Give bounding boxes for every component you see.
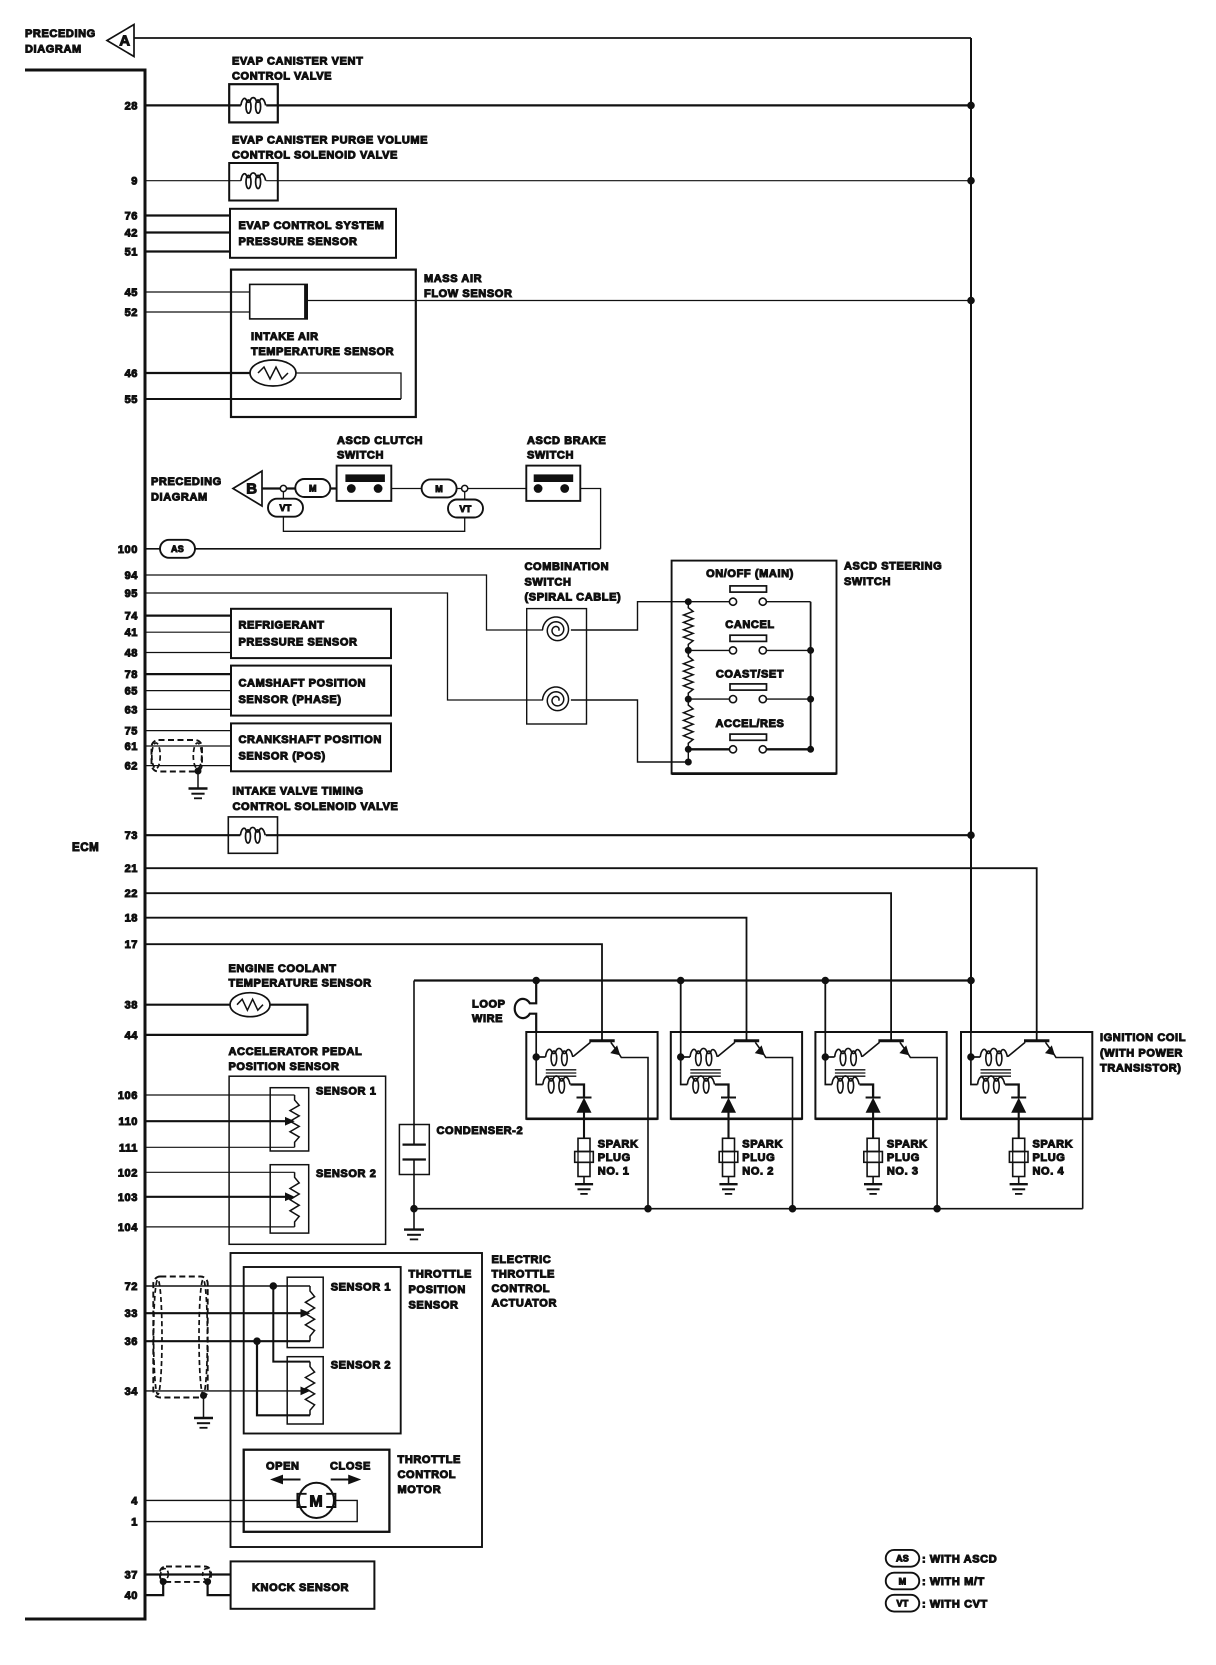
svg-text:78: 78	[125, 669, 138, 681]
TPS sensor 2 box	[287, 1357, 323, 1424]
svg-text:AS: AS	[171, 544, 184, 554]
junction pin 28 / right bus	[968, 102, 975, 109]
wire pin 9	[145, 180, 971, 182]
switch COAST/SET wiring	[688, 698, 810, 700]
svg-text:WIRE: WIRE	[472, 1013, 503, 1025]
solenoid EVAP canister vent control valve coil	[241, 98, 266, 106]
node branch M/VT right	[462, 485, 468, 491]
ignition supply line	[414, 979, 971, 981]
switch ACCEL/RES contacts	[729, 746, 736, 753]
svg-text:ACTUATOR: ACTUATOR	[492, 1298, 558, 1310]
APP sensor 2 resistor	[290, 1172, 299, 1227]
svg-text:SENSOR 1: SENSOR 1	[331, 1282, 391, 1294]
wire condenser feed	[413, 981, 415, 1145]
svg-text:95: 95	[125, 588, 138, 600]
svg-text:38: 38	[125, 1000, 138, 1012]
wire connector B to clutch switch	[262, 487, 337, 489]
svg-text:63: 63	[125, 704, 138, 716]
svg-text:104: 104	[118, 1222, 138, 1234]
svg-text:PLUG: PLUG	[598, 1152, 631, 1164]
junction supply / coil 3	[822, 977, 829, 984]
svg-text:VT: VT	[897, 1599, 909, 1609]
svg-text:75: 75	[125, 726, 138, 738]
svg-text:NO. 1: NO. 1	[598, 1166, 630, 1178]
wire pin 72 branch to sensor 2	[273, 1286, 310, 1362]
svg-text:102: 102	[118, 1167, 138, 1179]
svg-text:ASCD CLUTCH: ASCD CLUTCH	[337, 435, 423, 447]
option oval VT (right)	[448, 500, 483, 518]
svg-text:ECM: ECM	[72, 842, 99, 854]
svg-text:103: 103	[118, 1192, 138, 1204]
svg-text:51: 51	[125, 247, 138, 259]
svg-text:44: 44	[125, 1030, 139, 1042]
svg-text:45: 45	[125, 287, 138, 299]
svg-text:SWITCH: SWITCH	[527, 450, 574, 462]
svg-text:TEMPERATURE SENSOR: TEMPERATURE SENSOR	[251, 346, 394, 358]
node chain bottom	[685, 759, 691, 765]
svg-text:SENSOR 2: SENSOR 2	[316, 1168, 376, 1180]
node rail cancel	[808, 647, 814, 653]
solenoid EVAP canister vent control valve box	[229, 84, 278, 122]
junction supply / coil 1	[533, 977, 540, 984]
mass air flow sensor box	[231, 270, 416, 417]
svg-text:EVAP CANISTER VENT: EVAP CANISTER VENT	[232, 56, 363, 68]
svg-text:48: 48	[125, 648, 138, 660]
legend oval VT	[886, 1595, 920, 1612]
condenser-2 box	[399, 1125, 429, 1175]
engine coolant temperature sensor thermistor	[230, 993, 270, 1017]
wire supply drop coil 3	[824, 981, 826, 1033]
ASCD steering switch box bottom edge	[672, 772, 837, 775]
APP sensor 2 box	[270, 1165, 309, 1233]
svg-text:M: M	[309, 1494, 323, 1511]
svg-text:9: 9	[131, 176, 138, 188]
svg-text:VT: VT	[460, 504, 472, 514]
connector A triangle	[107, 25, 134, 57]
svg-text:PLUG: PLUG	[887, 1152, 920, 1164]
ground crankshaft shield	[189, 787, 208, 789]
svg-text:SENSOR (POS): SENSOR (POS)	[239, 751, 326, 763]
svg-text:IGNITION COIL: IGNITION COIL	[1100, 1032, 1186, 1044]
svg-text:111: 111	[119, 1142, 138, 1154]
ignition coil T3 (with power transistor)	[815, 1032, 946, 1209]
spiral cable coil lower	[543, 687, 569, 711]
switch ON/OFF (MAIN) contacts	[729, 598, 736, 605]
svg-text:EVAP CONTROL SYSTEM: EVAP CONTROL SYSTEM	[239, 220, 385, 232]
solenoid EVAP canister purge volume control coil	[241, 173, 266, 181]
ECM left bus	[25, 69, 145, 1621]
svg-text:MOTOR: MOTOR	[398, 1484, 442, 1496]
svg-text:(WITH POWER: (WITH POWER	[1100, 1047, 1183, 1059]
junction knock shield left	[160, 1579, 166, 1585]
node chain 2	[685, 647, 691, 653]
svg-text:OPEN: OPEN	[266, 1461, 300, 1473]
junction coil 1 emitter / ground line	[645, 1205, 652, 1212]
node branch M/VT left	[280, 485, 286, 491]
MAF inner block	[250, 284, 308, 319]
wire spiral lower to steering switch	[571, 700, 688, 762]
throttle motor brushes	[297, 1494, 335, 1507]
legend oval AS	[886, 1550, 920, 1567]
svg-text:KNOCK SENSOR: KNOCK SENSOR	[252, 1582, 349, 1594]
option oval AS on pin 100 wire	[160, 540, 195, 558]
wire VT bypass branch	[283, 489, 464, 532]
switch CANCEL wiring	[688, 649, 810, 651]
node rail accel/res	[808, 746, 814, 752]
TPS sensor 1 box	[287, 1277, 323, 1347]
svg-text:55: 55	[125, 394, 138, 406]
svg-text:28: 28	[125, 100, 138, 112]
svg-text:ON/OFF (MAIN): ON/OFF (MAIN)	[706, 568, 794, 580]
junction pin 9 / right bus	[968, 177, 975, 184]
switch ACCEL/RES wiring	[688, 748, 810, 750]
wire supply drop coil 2	[680, 981, 682, 1033]
switch ON/OFF (MAIN) wiring	[688, 601, 810, 603]
svg-text:PRESSURE SENSOR: PRESSURE SENSOR	[239, 236, 358, 248]
svg-text:M: M	[435, 484, 443, 494]
wire condenser to ground line	[413, 1160, 415, 1230]
switch CANCEL contacts	[729, 647, 736, 654]
connector B triangle	[233, 471, 262, 506]
wire shield drain	[197, 771, 199, 788]
svg-text:NO. 3: NO. 3	[887, 1166, 919, 1178]
svg-text:73: 73	[125, 830, 138, 842]
ASCD brake switch box	[526, 466, 580, 501]
node chain 4	[685, 746, 691, 752]
node chain top	[685, 599, 691, 605]
ASCD clutch switch contacts	[346, 475, 385, 482]
svg-text:COMBINATION: COMBINATION	[525, 561, 610, 573]
right bus	[970, 38, 972, 1032]
svg-text:34: 34	[125, 1386, 139, 1398]
svg-text:41: 41	[125, 627, 138, 639]
junction coil 3 emitter / ground line	[934, 1205, 941, 1212]
svg-text:4: 4	[131, 1495, 138, 1507]
svg-text:62: 62	[125, 761, 138, 773]
svg-text:DIAGRAM: DIAGRAM	[25, 44, 82, 56]
shield TPS wires	[153, 1277, 207, 1398]
svg-text:94: 94	[125, 570, 139, 582]
svg-text:EVAP CANISTER PURGE VOLUME: EVAP CANISTER PURGE VOLUME	[232, 135, 428, 147]
junction pin 72 branch	[270, 1283, 277, 1290]
ignition coil T2 (with power transistor)	[671, 1032, 802, 1209]
junction pin 73 / right bus	[968, 832, 975, 839]
svg-text:TRANSISTOR): TRANSISTOR)	[1100, 1063, 1182, 1075]
svg-text:110: 110	[118, 1116, 138, 1128]
svg-text:LOOP: LOOP	[472, 999, 506, 1011]
junction knock shield right	[205, 1579, 211, 1585]
ASCD steering switch box	[672, 561, 837, 774]
svg-text:100: 100	[118, 544, 138, 556]
svg-text:SWITCH: SWITCH	[337, 450, 384, 462]
steering switch resistor chain	[684, 602, 694, 651]
APP sensor 1 box	[270, 1088, 309, 1151]
svg-text:76: 76	[125, 211, 138, 223]
svg-text:SENSOR: SENSOR	[409, 1300, 459, 1312]
option oval M (right)	[422, 479, 457, 497]
legend oval M	[886, 1573, 920, 1590]
svg-text:INTAKE AIR: INTAKE AIR	[251, 331, 319, 343]
TPS sensor 2 resistor	[305, 1362, 314, 1416]
ignition coil T4 (with power transistor)	[961, 1032, 1092, 1209]
throttle control motor box	[244, 1450, 390, 1532]
svg-text:ACCELERATOR PEDAL: ACCELERATOR PEDAL	[229, 1046, 363, 1058]
junction TPS shield drain	[201, 1393, 207, 1399]
option oval M (left)	[295, 479, 330, 497]
solenoid EVAP canister purge volume control solenoid valve box	[229, 163, 278, 201]
svg-text:33: 33	[125, 1308, 138, 1320]
svg-text:TEMPERATURE SENSOR: TEMPERATURE SENSOR	[229, 978, 372, 990]
svg-text:61: 61	[125, 741, 138, 753]
svg-text:MASS AIR: MASS AIR	[424, 273, 482, 285]
svg-text:CONDENSER-2: CONDENSER-2	[437, 1125, 524, 1137]
svg-text:21: 21	[125, 863, 138, 875]
ground TPS shield	[194, 1417, 213, 1419]
switch CANCEL button bar	[730, 635, 767, 641]
svg-text:42: 42	[125, 228, 138, 240]
spiral cable coil upper	[543, 617, 569, 641]
refrigerant pressure sensor box	[231, 609, 391, 658]
svg-text:SWITCH: SWITCH	[525, 576, 572, 588]
solenoid intake valve timing control coil	[240, 827, 265, 835]
svg-text:VT: VT	[280, 503, 292, 513]
wire thermistor to pin 55 corner	[296, 373, 401, 399]
svg-text:FLOW SENSOR: FLOW SENSOR	[424, 288, 513, 300]
svg-text:B: B	[246, 481, 257, 498]
svg-text:CAMSHAFT POSITION: CAMSHAFT POSITION	[239, 678, 367, 690]
TPS sensor 1 resistor	[305, 1286, 314, 1341]
svg-text:SPARK: SPARK	[887, 1139, 928, 1151]
svg-text:AS: AS	[896, 1554, 909, 1564]
shield crankshaft sensor wires	[152, 740, 203, 772]
svg-text:37: 37	[125, 1570, 138, 1582]
svg-text:REFRIGERANT: REFRIGERANT	[239, 620, 325, 632]
svg-text:POSITION: POSITION	[409, 1284, 466, 1296]
svg-text:CRANKSHAFT POSITION: CRANKSHAFT POSITION	[239, 734, 382, 746]
svg-text:SENSOR 2: SENSOR 2	[331, 1360, 391, 1372]
svg-text:THROTTLE: THROTTLE	[409, 1269, 472, 1281]
svg-text:SWITCH: SWITCH	[844, 576, 891, 588]
svg-text:PRECEDING: PRECEDING	[151, 476, 222, 488]
svg-text:PRESSURE SENSOR: PRESSURE SENSOR	[239, 637, 358, 649]
svg-text:SENSOR 1: SENSOR 1	[316, 1086, 376, 1098]
steering switch right rail	[810, 602, 812, 750]
svg-text:SENSOR (PHASE): SENSOR (PHASE)	[239, 694, 342, 706]
svg-text:CONTROL VALVE: CONTROL VALVE	[232, 71, 332, 83]
wire spiral upper to steering switch	[571, 602, 688, 630]
ignition coil T1 (with power transistor)	[526, 1032, 657, 1209]
svg-text:65: 65	[125, 686, 138, 698]
camshaft position sensor box	[231, 666, 391, 716]
svg-text:SPARK: SPARK	[742, 1139, 783, 1151]
svg-text:40: 40	[125, 1590, 138, 1602]
combination switch (spiral cable) box	[527, 609, 587, 724]
svg-text:CANCEL: CANCEL	[725, 619, 774, 631]
svg-text:ACCEL/RES: ACCEL/RES	[716, 718, 785, 730]
intake air temperature sensor thermistor	[250, 360, 296, 386]
junction MAF output / right bus	[968, 297, 975, 304]
svg-text:: WITH CVT: : WITH CVT	[922, 1598, 988, 1610]
wire brake switch to pin 100 line	[580, 489, 600, 549]
accelerator pedal position sensor box	[229, 1076, 386, 1244]
node chain 3	[685, 696, 691, 702]
junction supply / coil 2	[677, 977, 684, 984]
wire pin 73	[145, 834, 971, 836]
svg-text:NO. 4: NO. 4	[1033, 1166, 1065, 1178]
svg-text:CONTROL SOLENOID VALVE: CONTROL SOLENOID VALVE	[233, 801, 399, 813]
svg-text:INTAKE VALVE TIMING: INTAKE VALVE TIMING	[233, 786, 364, 798]
throttle position sensor box	[244, 1267, 401, 1434]
arrow open (left)	[281, 1479, 301, 1481]
svg-text:CONTROL SOLENOID VALVE: CONTROL SOLENOID VALVE	[232, 150, 398, 162]
svg-text:17: 17	[125, 939, 138, 951]
spark plug ground line	[414, 1208, 1083, 1210]
junction shield drain	[195, 768, 201, 774]
svg-text:M: M	[899, 1576, 907, 1586]
svg-text:52: 52	[125, 307, 138, 319]
condenser-2 capacitor	[403, 1145, 426, 1160]
arrow close (right)	[331, 1479, 351, 1481]
ASCD brake switch contacts	[534, 475, 573, 482]
switch COAST/SET contacts	[729, 696, 736, 703]
wire MAF output to right bus	[307, 300, 971, 302]
svg-text:ENGINE COOLANT: ENGINE COOLANT	[229, 963, 337, 975]
svg-text:SPARK: SPARK	[1033, 1139, 1074, 1151]
ground condenser	[404, 1228, 424, 1230]
svg-text:74: 74	[125, 611, 139, 623]
wire pin 36 branch to sensor 2	[257, 1341, 310, 1415]
svg-text:ASCD BRAKE: ASCD BRAKE	[527, 435, 606, 447]
junction coil 2 emitter / ground line	[789, 1205, 796, 1212]
wire pin 28	[145, 104, 971, 106]
APP sensor 1 resistor	[290, 1095, 299, 1147]
svg-text:COAST/SET: COAST/SET	[716, 669, 784, 681]
ASCD clutch switch box	[337, 466, 392, 501]
node rail coast/set	[808, 696, 814, 702]
svg-text:PLUG: PLUG	[1033, 1152, 1066, 1164]
svg-text:POSITION SENSOR: POSITION SENSOR	[229, 1061, 340, 1073]
svg-text:106: 106	[118, 1090, 138, 1102]
EVAP control system pressure sensor box	[230, 209, 396, 258]
solenoid intake valve timing control valve box	[228, 817, 277, 853]
electric throttle control actuator box	[231, 1253, 483, 1547]
svg-text:A: A	[119, 33, 130, 50]
svg-text:22: 22	[125, 888, 138, 900]
svg-text:18: 18	[125, 913, 138, 925]
wire coolant sensor return	[270, 1005, 307, 1035]
option oval VT (left)	[268, 499, 303, 517]
svg-text:THROTTLE: THROTTLE	[398, 1454, 461, 1466]
junction condenser / ground line	[411, 1205, 418, 1212]
svg-text:SPARK: SPARK	[598, 1139, 639, 1151]
svg-text:: WITH ASCD: : WITH ASCD	[922, 1554, 997, 1566]
svg-text:THROTTLE: THROTTLE	[492, 1269, 555, 1281]
svg-text:(SPIRAL CABLE): (SPIRAL CABLE)	[525, 592, 622, 604]
svg-text:46: 46	[125, 368, 138, 380]
svg-text:M: M	[309, 483, 317, 493]
svg-text:1: 1	[131, 1517, 138, 1529]
svg-text:NO. 2: NO. 2	[742, 1166, 774, 1178]
svg-text:PRECEDING: PRECEDING	[25, 28, 96, 40]
svg-text:72: 72	[125, 1281, 138, 1293]
svg-text:CONTROL: CONTROL	[492, 1283, 551, 1295]
svg-text:ELECTRIC: ELECTRIC	[492, 1254, 552, 1266]
svg-text:: WITH M/T: : WITH M/T	[922, 1576, 985, 1588]
junction supply / right bus	[968, 977, 975, 984]
svg-text:ASCD STEERING: ASCD STEERING	[844, 561, 942, 573]
svg-text:CLOSE: CLOSE	[330, 1461, 371, 1473]
throttle motor M1 circle	[299, 1483, 334, 1518]
crankshaft position sensor box	[231, 723, 391, 771]
loop wire symbol	[515, 981, 536, 1033]
svg-text:CONTROL: CONTROL	[398, 1469, 457, 1481]
wire TPS shield drain	[203, 1396, 205, 1418]
wire connector A to right bus	[134, 37, 971, 39]
knock sensor box	[231, 1561, 375, 1608]
svg-text:DIAGRAM: DIAGRAM	[151, 492, 208, 504]
svg-text:36: 36	[125, 1336, 138, 1348]
junction pin 36 branch	[254, 1338, 261, 1345]
shield knock sensor wire	[160, 1567, 211, 1582]
switch ACCEL/RES button bar	[730, 734, 767, 740]
switch COAST/SET button bar	[730, 684, 767, 690]
wire clutch switch to brake switch	[391, 488, 526, 490]
svg-text:PLUG: PLUG	[742, 1152, 775, 1164]
switch ON/OFF (MAIN) button bar	[730, 586, 767, 592]
